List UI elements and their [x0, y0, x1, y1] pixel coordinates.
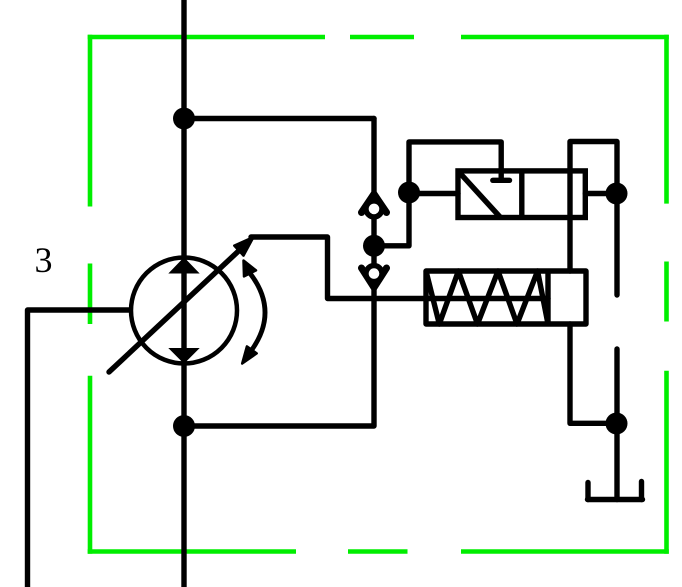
- svg-text:3: 3: [35, 240, 53, 280]
